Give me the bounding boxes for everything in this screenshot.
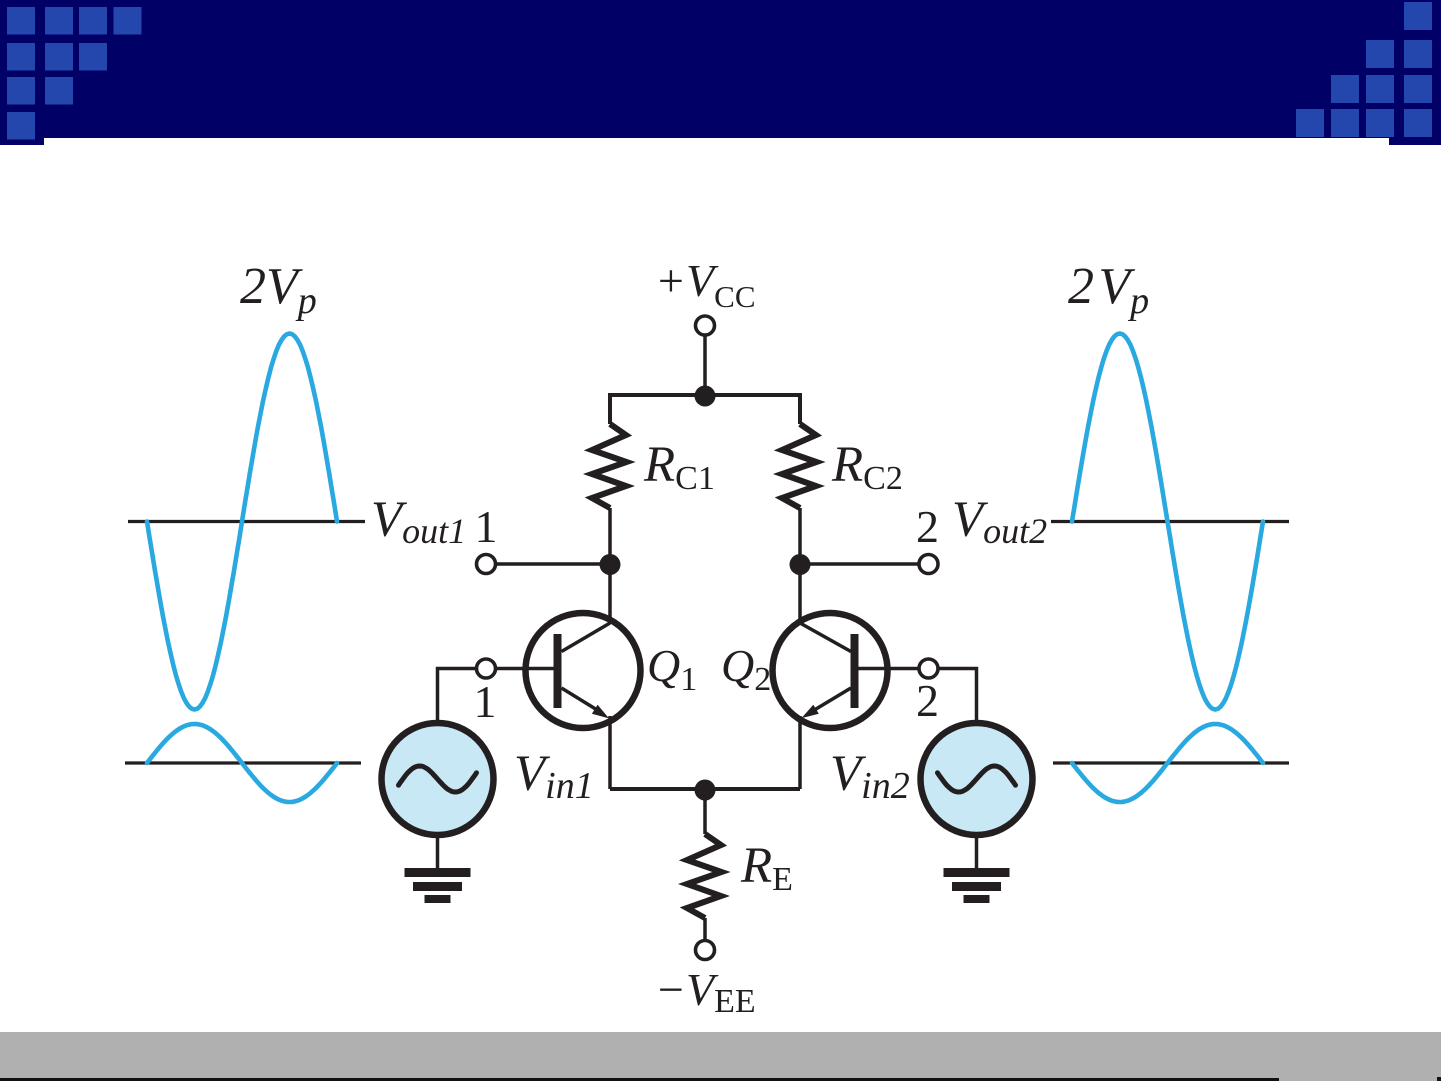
svg-text:2 Vp: 2 Vp	[1068, 258, 1149, 322]
svg-text:1: 1	[475, 501, 498, 552]
svg-text:Vout1: Vout1	[371, 492, 466, 551]
svg-text:RE: RE	[740, 838, 793, 898]
svg-text:Vout2: Vout2	[952, 492, 1047, 551]
svg-text:−VEE: −VEE	[655, 964, 756, 1020]
svg-text:Q1: Q1	[647, 640, 697, 698]
svg-text:2Vp: 2Vp	[240, 258, 317, 322]
svg-text:Vin1: Vin1	[514, 746, 594, 807]
svg-text:1: 1	[474, 676, 497, 727]
svg-text:Q2: Q2	[721, 640, 771, 698]
svg-text:2: 2	[916, 501, 939, 552]
svg-text:+VCC: +VCC	[655, 255, 756, 314]
svg-text:RC2: RC2	[831, 437, 903, 497]
svg-text:2: 2	[916, 675, 939, 726]
svg-text:Vin2: Vin2	[830, 746, 910, 807]
svg-text:RC1: RC1	[643, 437, 715, 497]
